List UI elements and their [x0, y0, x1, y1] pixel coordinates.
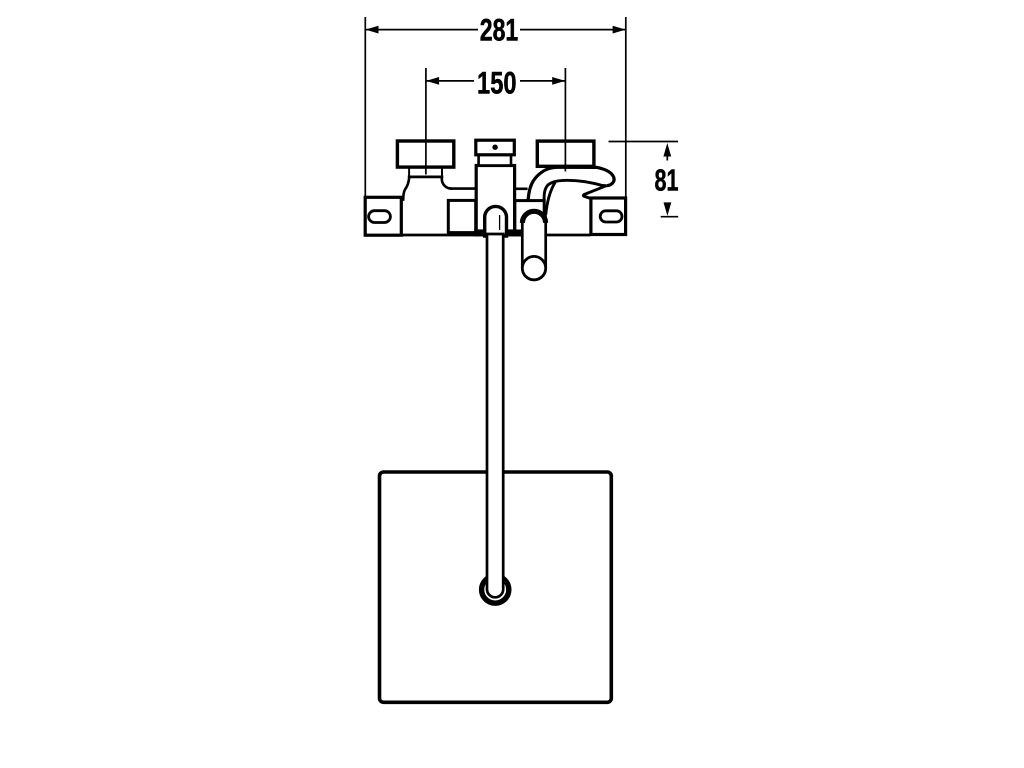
- right knob: [537, 141, 594, 166]
- dimension 81 arrow up: [663, 143, 671, 157]
- bottom black band under body: [474, 230, 523, 237]
- dimension 150 arrow left: [426, 77, 439, 85]
- dimension 150 extension line right: [564, 68, 566, 172]
- pipe inner hidden line: [499, 215, 501, 230]
- outlet pipe top arc: [485, 206, 507, 236]
- tub outline: [380, 472, 612, 702]
- right inlet union block: [515, 201, 544, 233]
- left knob: [397, 141, 453, 167]
- dimension 150 arrow right: [552, 77, 565, 85]
- center cap ring: [479, 155, 511, 166]
- dimension 81 bottom tick line: [661, 216, 679, 218]
- body ledge left (between left valve and center body): [450, 187, 477, 190]
- left inlet union block: [448, 200, 475, 232]
- dimension 281 extension line right: [625, 17, 627, 198]
- dimension 81 extension line top: [609, 141, 679, 143]
- handshower cylinder: [522, 211, 545, 280]
- hook underside diagonal: [583, 186, 606, 199]
- swan hose outer outline: [528, 167, 614, 200]
- svg-text:81: 81: [655, 164, 679, 198]
- dimension 150 line: [426, 80, 474, 82]
- dimension 150 extension line left: [425, 68, 427, 175]
- left ear slot: [369, 211, 391, 223]
- body ledge right of center body: [514, 188, 528, 191]
- svg-text:150: 150: [477, 64, 517, 100]
- dimension 81 arrow down: [664, 202, 672, 216]
- long outlet pipe: [487, 234, 503, 597]
- handshower bottom face circle: [522, 256, 545, 279]
- left valve shoulder left outline: [401, 177, 410, 200]
- center top cap: [476, 140, 515, 155]
- handshower head cone arc: [546, 182, 556, 215]
- right ear slot: [600, 211, 622, 222]
- dimension 281 arrow right: [613, 26, 626, 34]
- handshower top cap thick arc: [522, 211, 545, 223]
- wall plate top-left short line: [401, 198, 405, 201]
- center cap dot: [492, 145, 497, 150]
- dimension 281 arrow left: [366, 26, 379, 34]
- right mounting ear: [591, 198, 626, 235]
- swan hose inner outline: [544, 180, 606, 200]
- dimension 281 line: [365, 29, 478, 31]
- center valve body: [476, 166, 514, 232]
- left valve shoulder right outline: [442, 177, 452, 189]
- dimension 281 extension line left: [364, 17, 366, 198]
- left valve neck: [409, 167, 442, 177]
- drain ring: [482, 576, 509, 603]
- svg-text:281: 281: [480, 11, 519, 47]
- wall plate bottom line: [401, 234, 591, 237]
- left mounting ear: [365, 197, 401, 235]
- handshower clip bump: [544, 211, 547, 222]
